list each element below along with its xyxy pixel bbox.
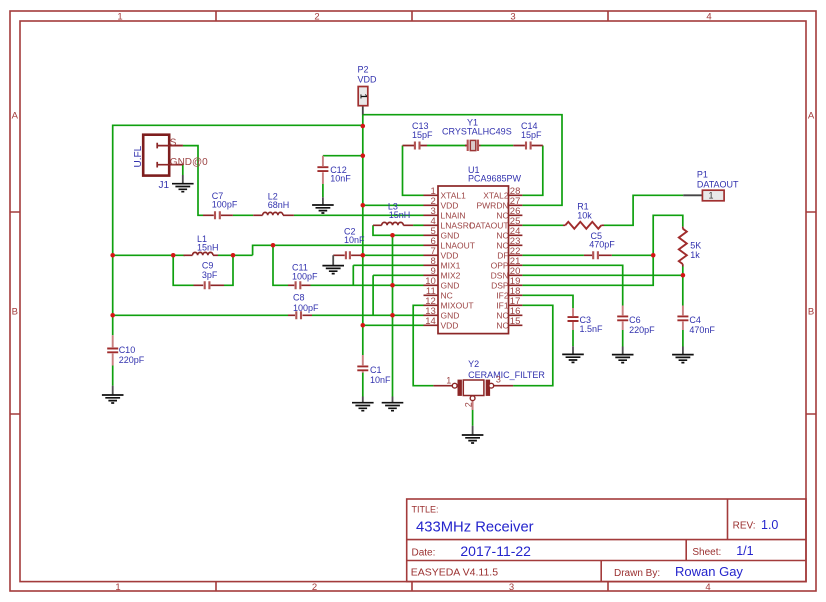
svg-text:Rowan Gay: Rowan Gay — [675, 564, 743, 579]
svg-text:TITLE:: TITLE: — [412, 504, 439, 514]
svg-text:DSP: DSP — [491, 281, 509, 291]
svg-text:15: 15 — [510, 316, 521, 327]
svg-text:1: 1 — [446, 375, 451, 385]
svg-text:B: B — [808, 306, 814, 317]
svg-text:DSN: DSN — [491, 271, 509, 281]
svg-text:2: 2 — [463, 402, 473, 407]
svg-text:IF2: IF2 — [496, 291, 509, 301]
svg-text:U.FL: U.FL — [133, 145, 144, 167]
svg-text:C9: C9 — [202, 260, 214, 270]
svg-text:4: 4 — [706, 11, 711, 22]
svg-text:C6: C6 — [629, 315, 641, 325]
svg-text:NC: NC — [496, 311, 508, 321]
svg-text:3: 3 — [510, 11, 515, 22]
svg-text:LNAIN: LNAIN — [441, 211, 466, 221]
svg-text:A: A — [808, 110, 815, 121]
svg-text:3: 3 — [496, 375, 501, 385]
svg-text:433MHz Receiver: 433MHz Receiver — [416, 519, 534, 535]
svg-text:PCA9685PW: PCA9685PW — [468, 174, 522, 184]
svg-text:VDD: VDD — [441, 201, 459, 211]
svg-text:1: 1 — [115, 582, 120, 593]
svg-text:2017-11-22: 2017-11-22 — [460, 543, 531, 559]
svg-text:10nF: 10nF — [344, 235, 365, 245]
svg-text:10k: 10k — [577, 210, 592, 220]
svg-text:15pF: 15pF — [521, 130, 542, 140]
svg-text:100pF: 100pF — [212, 199, 238, 209]
svg-text:GND@0: GND@0 — [170, 157, 208, 168]
svg-text:10nF: 10nF — [330, 174, 351, 184]
svg-text:1: 1 — [708, 191, 713, 201]
svg-text:220pF: 220pF — [629, 325, 655, 335]
svg-text:DF: DF — [497, 251, 508, 261]
svg-text:1.5nF: 1.5nF — [580, 324, 604, 334]
svg-text:VDD: VDD — [441, 321, 459, 331]
svg-text:5K: 5K — [690, 240, 701, 250]
svg-text:GND: GND — [441, 231, 460, 241]
svg-text:IF1: IF1 — [496, 301, 509, 311]
svg-text:MIX1: MIX1 — [441, 261, 461, 271]
svg-text:MIXOUT: MIXOUT — [441, 301, 474, 311]
svg-text:470nF: 470nF — [689, 325, 715, 335]
svg-text:NC: NC — [496, 211, 508, 221]
svg-text:1k: 1k — [690, 250, 700, 260]
svg-text:2: 2 — [312, 582, 317, 593]
svg-text:XTAL1: XTAL1 — [441, 191, 467, 201]
svg-text:C8: C8 — [293, 292, 305, 302]
svg-text:REV:: REV: — [733, 520, 756, 531]
svg-text:Y2: Y2 — [468, 359, 479, 369]
svg-text:CRYSTALHC49S: CRYSTALHC49S — [442, 126, 512, 136]
svg-text:S: S — [170, 137, 177, 148]
svg-text:1: 1 — [358, 94, 368, 99]
svg-text:DATAOUT: DATAOUT — [697, 179, 739, 189]
svg-text:P2: P2 — [358, 65, 369, 75]
svg-text:100pF: 100pF — [293, 303, 319, 313]
svg-text:GND: GND — [441, 311, 460, 321]
svg-text:470pF: 470pF — [589, 240, 615, 250]
svg-text:Sheet:: Sheet: — [692, 547, 721, 558]
svg-text:1/1: 1/1 — [736, 544, 753, 558]
svg-text:100pF: 100pF — [292, 271, 318, 281]
svg-text:Drawn By:: Drawn By: — [614, 568, 660, 579]
svg-text:14: 14 — [425, 316, 436, 327]
svg-text:PWRDN: PWRDN — [476, 201, 508, 211]
svg-text:CERAMIC_FILTER: CERAMIC_FILTER — [468, 370, 545, 380]
svg-text:B: B — [12, 306, 18, 317]
svg-text:P1: P1 — [697, 170, 708, 180]
svg-text:220pF: 220pF — [119, 355, 145, 365]
svg-text:1: 1 — [117, 11, 122, 22]
svg-text:VDD: VDD — [358, 75, 378, 85]
svg-text:OPP: OPP — [491, 261, 509, 271]
svg-text:MIX2: MIX2 — [441, 271, 461, 281]
svg-text:15nH: 15nH — [389, 210, 411, 220]
svg-text:DATAOUT: DATAOUT — [469, 221, 508, 231]
svg-text:2: 2 — [314, 11, 319, 22]
svg-text:3pF: 3pF — [202, 270, 218, 280]
svg-text:NC: NC — [496, 231, 508, 241]
svg-text:EASYEDA V4.11.5: EASYEDA V4.11.5 — [411, 566, 499, 578]
svg-text:15nH: 15nH — [197, 242, 219, 252]
svg-text:A: A — [12, 110, 19, 121]
svg-text:LNAOUT: LNAOUT — [441, 241, 475, 251]
svg-text:NC: NC — [496, 241, 508, 251]
svg-text:C4: C4 — [689, 315, 701, 325]
svg-text:XTAL2: XTAL2 — [483, 191, 509, 201]
svg-text:1.0: 1.0 — [761, 518, 778, 532]
svg-text:4: 4 — [705, 582, 710, 593]
svg-text:Date:: Date: — [412, 547, 436, 558]
svg-text:J1: J1 — [159, 180, 170, 191]
svg-text:C1: C1 — [370, 365, 382, 375]
svg-text:NC: NC — [441, 291, 453, 301]
svg-text:GND: GND — [441, 281, 460, 291]
svg-text:C10: C10 — [119, 345, 136, 355]
svg-text:NC: NC — [496, 321, 508, 331]
svg-text:3: 3 — [509, 582, 514, 593]
svg-text:10nF: 10nF — [370, 375, 391, 385]
svg-text:15pF: 15pF — [412, 130, 433, 140]
svg-text:68nH: 68nH — [268, 200, 290, 210]
svg-text:VDD: VDD — [441, 251, 459, 261]
